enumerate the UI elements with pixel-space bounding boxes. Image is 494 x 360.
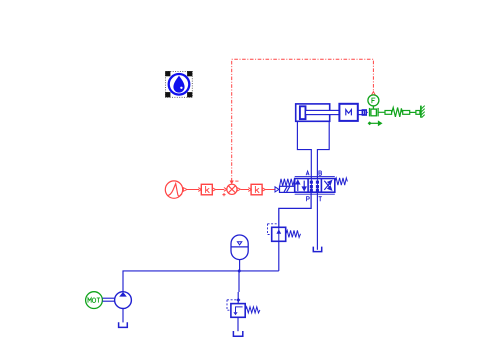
pressure relief valve (system): [268, 224, 301, 242]
wire relief valve 2 to tank: [237, 317, 239, 331]
mass block M: [339, 104, 367, 121]
displacement arrow: [368, 121, 381, 125]
wire summer to gain k2: [241, 189, 249, 191]
wire relief valve to bus: [278, 241, 280, 271]
4/3 directional valve body: [295, 179, 335, 193]
minus label: [235, 180, 238, 182]
junction accumulator/bus: [237, 269, 241, 273]
summing junction: [227, 184, 241, 194]
wire valve P to relief branch: [279, 192, 311, 227]
feedback signal wire (dash-dot): [232, 59, 374, 181]
accumulator: [231, 235, 248, 271]
signal source (waveform generator): [165, 181, 187, 198]
electric motor MOT: [86, 292, 103, 309]
wire signal source to gain k1: [187, 189, 199, 191]
port label P: [307, 197, 310, 202]
junction pilot tap: [236, 298, 240, 302]
tank at relief valve 2: [233, 331, 242, 336]
port label B: [319, 171, 322, 175]
wire pump to tank: [122, 309, 124, 323]
valve right position crossed arrows: [324, 181, 331, 190]
spring-mass to wall: [385, 108, 420, 117]
port label A: [306, 171, 309, 175]
shaft motor-pump: [102, 297, 114, 299]
force sensor F: [368, 95, 385, 117]
wire k1 to summer: [216, 189, 225, 191]
force sensor output port: [372, 92, 376, 95]
hydraulic cylinder: [296, 104, 340, 121]
valve bottom rail: [295, 193, 335, 195]
fluid properties icon (selected): [165, 71, 192, 97]
proportional solenoid: [280, 186, 295, 192]
wall anchor: [421, 106, 425, 118]
pump to bus riser and bus wire: [123, 271, 279, 292]
hydraulic pump: [115, 292, 132, 309]
wire cylinder right port to valve B: [317, 121, 329, 178]
pressure relief valve (pump): [227, 300, 260, 318]
plus label: [222, 193, 225, 196]
solenoid input arrowhead: [275, 187, 279, 192]
valve right spring: [335, 178, 348, 185]
valve left position arrows: [296, 181, 306, 192]
tank at pump: [119, 322, 128, 327]
port label T: [319, 197, 322, 202]
gain block k2: [251, 184, 265, 195]
wire cylinder left port to valve A: [297, 121, 311, 178]
valve centre position (blocked): [310, 179, 318, 193]
wire valve T down: [316, 192, 318, 250]
valve left spring: [280, 179, 295, 186]
valve top rail: [295, 175, 335, 177]
feedback arrow into summer: [230, 181, 234, 185]
wire k2 to valve solenoid: [266, 189, 275, 191]
tank at T: [313, 247, 321, 252]
wire junction down to relief valve 2: [238, 271, 240, 292]
gain block k1: [201, 184, 215, 195]
